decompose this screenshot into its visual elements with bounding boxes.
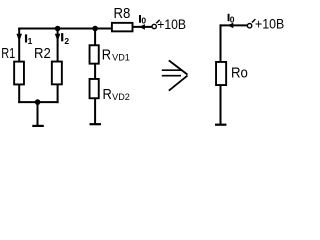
ground right (215, 124, 226, 126)
wire R8 to terminal (133, 26, 152, 28)
svg-text:0: 0 (230, 14, 235, 24)
arrow I0 left circuit (139, 24, 145, 30)
label I1 (25, 34, 27, 42)
terminal tick right (252, 19, 256, 22)
svg-text:+10В: +10В (255, 17, 284, 32)
wire between RVD1 and RVD2 (94, 64, 96, 79)
svg-text:0: 0 (141, 16, 146, 26)
arrow I1 (16, 34, 22, 42)
svg-text:1: 1 (28, 36, 33, 46)
label I2 (61, 33, 63, 41)
wire ground stub left (37, 102, 39, 125)
svg-text:VD2: VD2 (112, 92, 130, 102)
svg-text:R: R (102, 48, 111, 64)
resistor RVD1 (90, 45, 99, 63)
node junction top 2 (92, 26, 98, 32)
wire Ro bottom lead (220, 85, 222, 124)
terminal circle left (152, 24, 156, 28)
terminal circle right (247, 24, 251, 28)
node junction bottom (35, 99, 41, 105)
ground middle (90, 123, 102, 125)
implies arrow line upper (162, 69, 181, 71)
node junction top 1 (55, 26, 61, 32)
svg-text:R8: R8 (114, 6, 131, 22)
svg-text:R: R (103, 87, 112, 103)
wire R1 bottom lead (18, 85, 20, 103)
ground left (32, 125, 44, 127)
implies arrow head upper stroke (169, 60, 188, 74)
arrow I0 right circuit (228, 23, 234, 29)
label I0 left (139, 15, 141, 23)
svg-text:Ro: Ro (231, 65, 248, 81)
resistor RVD2 (90, 79, 99, 98)
wire RVD branch top (94, 28, 96, 46)
svg-text:+10В: +10В (157, 17, 186, 32)
resistor R2 (52, 62, 62, 85)
arrow I2 (55, 34, 61, 42)
wire RVD2 bottom lead (94, 98, 96, 124)
wire R2 branch vertical (57, 28, 59, 62)
wire R1 branch vertical (18, 28, 20, 62)
svg-text:VD1: VD1 (112, 53, 130, 63)
wire top right circuit (220, 24, 248, 26)
implies arrow line lower (162, 75, 181, 77)
svg-text:2: 2 (64, 36, 69, 46)
wire Ro top lead (220, 24, 222, 62)
svg-text:R1: R1 (1, 46, 15, 62)
wire R2 bottom lead (57, 85, 59, 103)
implies arrow head lower stroke (169, 76, 188, 91)
terminal tick left (156, 20, 160, 23)
label I0 right (228, 14, 230, 21)
svg-text:R2: R2 (34, 46, 51, 62)
wire top bus left circuit (18, 28, 112, 30)
resistor R1 (14, 62, 24, 85)
resistor R8 (112, 23, 133, 32)
resistor Ro (216, 62, 226, 85)
wire bottom bus left circuit (18, 101, 58, 103)
